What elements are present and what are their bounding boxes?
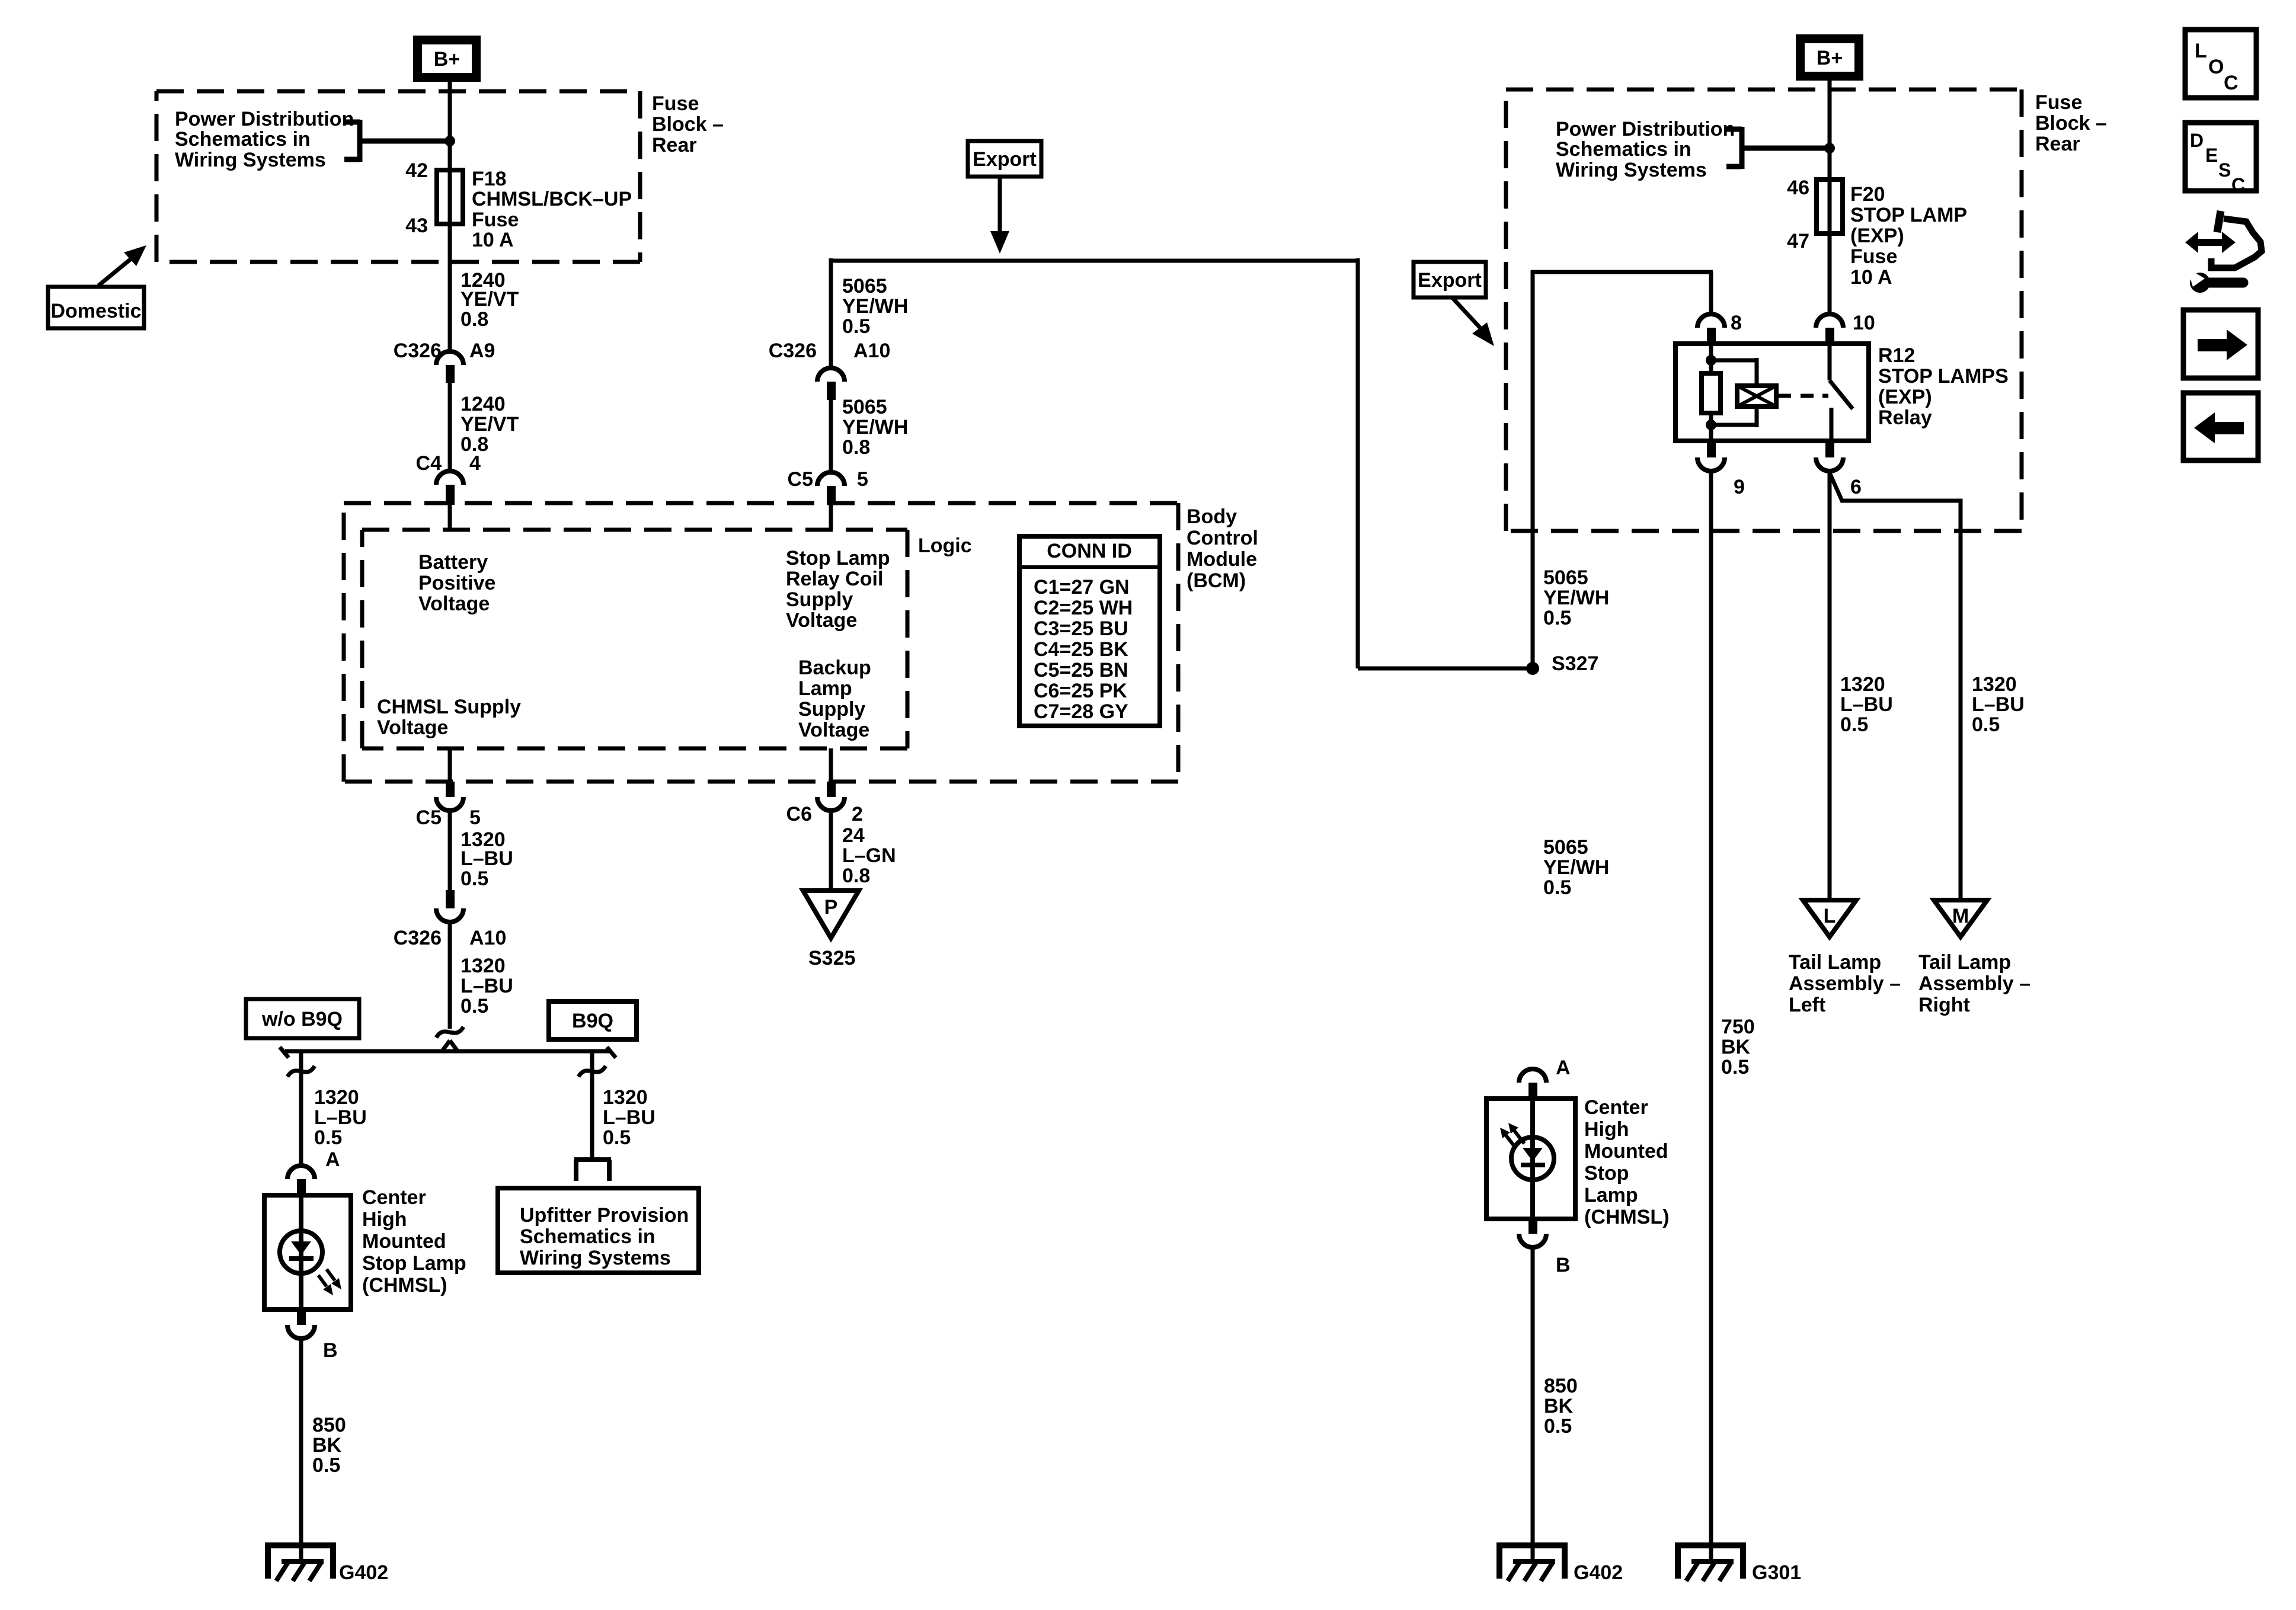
svg-text:YE/VT: YE/VT <box>461 413 519 436</box>
wire BCM-C5 feed from export path <box>831 259 1358 263</box>
wire CHMSL-B to G402 right, 850 BK 0.5 <box>1531 1247 1535 1561</box>
svg-text:8: 8 <box>1731 312 1742 334</box>
connector C6 pin 2 out of BCM <box>786 782 863 825</box>
svg-text:Center: Center <box>362 1186 426 1209</box>
wire BCM-C5 to C326-A10, 1320 L-BU 0.5 <box>448 811 452 890</box>
svg-text:BK: BK <box>1721 1036 1751 1058</box>
svg-text:0.5: 0.5 <box>314 1126 342 1149</box>
BCM logic inner dashed box <box>362 528 907 532</box>
option split bar with chevron <box>280 1041 616 1058</box>
svg-text:Module: Module <box>1187 548 1257 571</box>
ground G402 (left) <box>268 1545 333 1579</box>
svg-text:0.5: 0.5 <box>1840 713 1868 736</box>
connector pin A of CHMSL (left) <box>287 1148 340 1196</box>
svg-text:A: A <box>325 1148 340 1171</box>
svg-text:C: C <box>2231 174 2245 196</box>
wire C326-A9 to BCM C4, 1240 YE/VT 0.8 <box>448 383 452 471</box>
svg-text:Positive: Positive <box>418 572 495 594</box>
svg-text:A10: A10 <box>469 927 506 949</box>
bracket from note to feed wire (left) <box>344 120 360 125</box>
svg-text:5: 5 <box>857 468 868 491</box>
svg-text:STOP LAMP: STOP LAMP <box>1850 204 1967 226</box>
connector pin B of CHMSL (left) <box>287 1310 338 1362</box>
svg-text:A: A <box>1556 1057 1571 1079</box>
fuse block - rear dashed box (left) <box>156 89 640 94</box>
wire relay pin 6 branch to tail lamp right <box>1830 473 1961 900</box>
svg-text:S: S <box>2218 159 2231 181</box>
center high mounted stop lamp CHMSL (right) <box>1486 1096 1670 1228</box>
svg-text:5065: 5065 <box>1543 566 1588 589</box>
svg-text:850: 850 <box>312 1414 346 1436</box>
svg-text:M: M <box>1952 905 1969 927</box>
svg-text:F20: F20 <box>1850 183 1885 206</box>
svg-text:BK: BK <box>312 1434 342 1457</box>
svg-text:Control: Control <box>1187 527 1258 549</box>
svg-text:L–BU: L–BU <box>314 1106 367 1129</box>
svg-text:0.5: 0.5 <box>1543 607 1571 629</box>
wire relay pin 8 up and across to S327 line <box>1709 272 1713 315</box>
svg-text:1320: 1320 <box>1972 673 2017 696</box>
ground G402 (right) <box>1499 1545 1565 1579</box>
relay coil branch junction dots <box>1706 355 1716 366</box>
svg-text:5065: 5065 <box>1543 836 1588 859</box>
svg-text:P: P <box>824 896 838 918</box>
svg-text:5065: 5065 <box>842 396 887 418</box>
svg-text:(CHMSL): (CHMSL) <box>1584 1206 1670 1228</box>
icon box arrow left <box>2183 393 2258 460</box>
svg-text:10 A: 10 A <box>1850 266 1892 289</box>
right branch hook squiggle (B9Q) <box>578 1066 606 1077</box>
svg-text:4: 4 <box>469 452 481 475</box>
ground G301 <box>1678 1545 1743 1579</box>
callout Domestic with arrow <box>48 245 146 328</box>
connector relay pin 9 <box>1697 441 1745 498</box>
svg-text:2: 2 <box>852 803 863 825</box>
svg-text:1320: 1320 <box>1840 673 1885 696</box>
svg-text:0.5: 0.5 <box>312 1454 340 1477</box>
svg-text:YE/WH: YE/WH <box>1543 587 1609 609</box>
svg-text:Relay: Relay <box>1878 406 1932 429</box>
svg-text:Wiring Systems: Wiring Systems <box>1556 159 1707 181</box>
svg-text:CONN ID: CONN ID <box>1047 540 1132 562</box>
svg-text:C7=28 GY: C7=28 GY <box>1034 700 1128 723</box>
svg-text:Left: Left <box>1789 994 1825 1016</box>
svg-text:L: L <box>2195 40 2207 62</box>
svg-text:CHMSL Supply: CHMSL Supply <box>377 696 521 718</box>
svg-text:10 A: 10 A <box>472 229 514 251</box>
svg-text:C2=25 WH: C2=25 WH <box>1034 597 1133 619</box>
svg-text:1320: 1320 <box>461 955 506 977</box>
body control module BCM outer dashed box <box>344 501 1178 505</box>
svg-text:0.5: 0.5 <box>842 315 870 338</box>
svg-text:S325: S325 <box>808 947 855 969</box>
svg-text:Right: Right <box>1918 994 1970 1016</box>
splice node S327 <box>1526 662 1539 675</box>
wire C6 to splice S325, 24 L-GN 0.8 <box>829 811 833 891</box>
svg-text:Voltage: Voltage <box>798 719 869 741</box>
connector relay pin 10 <box>1816 312 1875 344</box>
wire B+ to fuse F18 (x=759) <box>448 82 452 225</box>
wire B9Q branch to upfitter provision, 1320 L-BU 0.5 <box>590 1051 594 1160</box>
svg-text:STOP LAMPS: STOP LAMPS <box>1878 365 2009 388</box>
svg-text:C6=25 PK: C6=25 PK <box>1034 680 1127 702</box>
relay coil element (box with X) <box>1737 386 1776 406</box>
wire B+ to fuse F20 <box>1828 81 1832 235</box>
svg-text:0.8: 0.8 <box>842 865 870 887</box>
svg-text:Voltage: Voltage <box>786 609 857 632</box>
svg-text:Block –: Block – <box>2035 112 2107 135</box>
svg-text:Assembly –: Assembly – <box>1918 972 2030 995</box>
svg-text:1240: 1240 <box>461 393 506 415</box>
svg-text:YE/VT: YE/VT <box>461 288 519 311</box>
callout Export (middle) with arrow <box>968 141 1041 254</box>
junction node on B+ feed (right) <box>1824 143 1835 153</box>
svg-text:(CHMSL): (CHMSL) <box>362 1274 447 1297</box>
svg-text:C6: C6 <box>786 803 812 825</box>
wire inside BCM left exit <box>448 748 452 782</box>
svg-text:Fuse: Fuse <box>472 209 519 231</box>
svg-text:C326: C326 <box>769 340 817 362</box>
relay coil to armature dashed link <box>1776 394 1791 398</box>
svg-text:0.5: 0.5 <box>461 868 488 890</box>
svg-text:Fuse: Fuse <box>2035 91 2082 114</box>
wire inside BCM right entry <box>829 505 833 530</box>
callout box B9Q <box>549 1001 637 1039</box>
svg-text:Rear: Rear <box>652 134 697 156</box>
svg-text:Wiring Systems: Wiring Systems <box>175 149 326 171</box>
option split break squiggle <box>436 1027 463 1038</box>
wire C326-A10 to option split, 1320 L-BU 0.5 <box>448 922 452 1029</box>
svg-text:Fuse: Fuse <box>1850 245 1897 268</box>
svg-text:Export: Export <box>973 148 1037 171</box>
svg-text:CHMSL/BCK–UP: CHMSL/BCK–UP <box>472 188 632 210</box>
fuse F18 CHMSL/BCK-UP 10A <box>405 159 632 251</box>
wire C326-A10 to BCM C5, 5065 YE/WH 0.8 <box>829 400 833 472</box>
svg-text:0.5: 0.5 <box>1543 876 1571 899</box>
callout box w/o B9Q <box>246 999 359 1038</box>
svg-text:Assembly –: Assembly – <box>1789 972 1901 995</box>
connector pin A of CHMSL (right) <box>1519 1057 1571 1100</box>
svg-text:(EXP): (EXP) <box>1878 386 1932 408</box>
svg-text:Schematics in: Schematics in <box>520 1225 655 1248</box>
icon box arrow right <box>2183 310 2258 378</box>
svg-text:S327: S327 <box>1552 652 1598 675</box>
connector C5 pin 5 out of BCM (left) <box>416 782 481 829</box>
svg-text:Lamp: Lamp <box>1584 1184 1638 1206</box>
svg-text:Voltage: Voltage <box>377 716 448 739</box>
svg-text:YE/WH: YE/WH <box>1543 856 1609 879</box>
svg-text:B+: B+ <box>434 48 460 71</box>
svg-text:42: 42 <box>405 159 428 182</box>
wire relay pin 6 to tail lamp left, 1320 L-BU 0.5 <box>1828 471 1832 900</box>
svg-text:C: C <box>2224 72 2239 94</box>
svg-text:Upfitter Provision: Upfitter Provision <box>520 1204 689 1227</box>
left branch hook squiggle <box>287 1066 315 1077</box>
svg-text:B9Q: B9Q <box>572 1010 613 1032</box>
svg-text:Relay Coil: Relay Coil <box>786 568 883 590</box>
svg-text:C326: C326 <box>394 927 442 949</box>
svg-text:G301: G301 <box>1752 1561 1801 1584</box>
relay resistor element <box>1702 373 1721 413</box>
svg-text:0.5: 0.5 <box>461 995 488 1017</box>
svg-text:Supply: Supply <box>798 698 865 721</box>
svg-text:R12: R12 <box>1878 344 1915 367</box>
svg-text:Tail Lamp: Tail Lamp <box>1918 951 2011 974</box>
center high mounted stop lamp CHMSL (left) <box>264 1186 466 1310</box>
svg-text:E: E <box>2205 145 2218 166</box>
svg-text:Stop Lamp: Stop Lamp <box>786 547 890 569</box>
svg-text:0.5: 0.5 <box>1972 713 2000 736</box>
svg-text:1320: 1320 <box>603 1086 648 1109</box>
svg-text:G402: G402 <box>339 1561 388 1584</box>
icon box DESC <box>2185 123 2256 196</box>
svg-text:Tail Lamp: Tail Lamp <box>1789 951 1881 974</box>
svg-text:Block –: Block – <box>652 113 724 136</box>
svg-text:Power Distribution: Power Distribution <box>1556 118 1735 140</box>
svg-text:10: 10 <box>1853 312 1875 334</box>
fuse F20 STOP LAMP (EXP) 10A <box>1787 177 1967 289</box>
svg-text:L–BU: L–BU <box>461 975 513 997</box>
svg-text:A9: A9 <box>469 340 495 362</box>
svg-text:w/o B9Q: w/o B9Q <box>261 1008 343 1030</box>
svg-text:750: 750 <box>1721 1016 1755 1038</box>
svg-text:Mounted: Mounted <box>1584 1140 1668 1163</box>
svg-text:Domestic: Domestic <box>50 300 141 322</box>
svg-text:Voltage: Voltage <box>418 593 490 615</box>
svg-text:B: B <box>1556 1254 1571 1276</box>
wire inside BCM left entry <box>448 503 452 530</box>
svg-text:High: High <box>362 1208 407 1231</box>
svg-text:G402: G402 <box>1574 1561 1623 1584</box>
off-page bracket to upfitter provision <box>574 1157 611 1162</box>
wire F18 to C326-A9, 1240 YE/VT 0.8 <box>448 224 452 351</box>
svg-text:0.5: 0.5 <box>603 1126 631 1149</box>
svg-text:Fuse: Fuse <box>652 92 699 115</box>
svg-text:O: O <box>2208 56 2224 78</box>
relay switch armature <box>1828 344 1832 380</box>
callout Export (right) with arrow <box>1414 262 1494 346</box>
wire fuse F20 to relay pin 10 <box>1828 233 1832 315</box>
connector relay pin 8 <box>1697 312 1742 344</box>
connector C4 pin 4 into BCM <box>416 452 481 505</box>
svg-text:43: 43 <box>405 215 428 237</box>
svg-text:B: B <box>323 1339 338 1362</box>
svg-text:L–BU: L–BU <box>1840 693 1893 716</box>
svg-text:Lamp: Lamp <box>798 677 852 700</box>
svg-text:C326: C326 <box>394 340 442 362</box>
wire export feed to splice S327 <box>1358 667 1533 671</box>
wire relay pin 9 to G301, 750 BK 0.5 <box>1709 471 1713 1561</box>
svg-text:C3=25 BU: C3=25 BU <box>1034 617 1128 640</box>
svg-text:High: High <box>1584 1118 1629 1141</box>
connector C326 pin A10 (left) <box>394 890 507 949</box>
wire inside BCM right exit <box>829 748 833 782</box>
svg-text:0.8: 0.8 <box>842 436 870 459</box>
junction node on B+ feed (left) <box>445 136 455 146</box>
wire CHMSL-B to G402, 850 BK 0.5 (left) <box>299 1339 303 1561</box>
svg-text:C5: C5 <box>416 806 442 829</box>
svg-text:6: 6 <box>1850 476 1862 498</box>
svg-text:C4=25 BK: C4=25 BK <box>1034 638 1128 661</box>
svg-text:A10: A10 <box>853 340 890 362</box>
svg-text:47: 47 <box>1787 230 1809 252</box>
svg-text:24: 24 <box>842 824 865 847</box>
svg-text:Mounted: Mounted <box>362 1230 446 1253</box>
callout Upfitter Provision Schematics in Wiring Systems <box>498 1188 699 1273</box>
off-page triangle L tail lamp left <box>1803 900 1856 937</box>
svg-text:0.8: 0.8 <box>461 308 488 331</box>
connector C326 pin A9 <box>394 340 495 383</box>
svg-text:9: 9 <box>1734 476 1745 498</box>
bracket from note to feed wire (right) <box>1726 127 1742 132</box>
svg-text:(BCM): (BCM) <box>1187 569 1246 592</box>
svg-text:Stop: Stop <box>1584 1162 1629 1185</box>
svg-text:0.5: 0.5 <box>1721 1056 1749 1078</box>
svg-text:Schematics in: Schematics in <box>1556 138 1691 161</box>
svg-text:5065: 5065 <box>842 275 887 297</box>
svg-text:Wiring Systems: Wiring Systems <box>520 1247 671 1269</box>
svg-text:Supply: Supply <box>786 588 853 611</box>
connector C326 pin A10 (middle) <box>769 340 891 400</box>
svg-text:Power Distribution: Power Distribution <box>175 108 354 130</box>
connector C5 pin 5 into BCM (middle) <box>788 468 868 505</box>
svg-text:L–BU: L–BU <box>1972 693 2025 716</box>
svg-text:L–BU: L–BU <box>461 847 513 870</box>
power symbol B+ (left battery positive) <box>413 36 481 82</box>
svg-text:C4: C4 <box>416 452 442 475</box>
icon vehicle with wrench <box>2185 211 2262 293</box>
off-page triangle P <box>803 891 859 938</box>
svg-text:850: 850 <box>1544 1375 1578 1397</box>
svg-text:0.5: 0.5 <box>1544 1415 1572 1438</box>
svg-text:B+: B+ <box>1817 47 1843 69</box>
svg-text:Backup: Backup <box>798 657 871 679</box>
svg-text:D: D <box>2190 130 2204 151</box>
svg-text:(EXP): (EXP) <box>1850 225 1904 247</box>
svg-text:Schematics in: Schematics in <box>175 128 311 151</box>
svg-text:Body: Body <box>1187 505 1237 528</box>
relay R12 STOP LAMPS (EXP) box <box>1675 344 1869 441</box>
off-page triangle M tail lamp right <box>1934 900 1987 937</box>
svg-text:YE/WH: YE/WH <box>842 295 908 318</box>
svg-text:Center: Center <box>1584 1096 1648 1119</box>
svg-text:C1=27 GN: C1=27 GN <box>1034 576 1130 598</box>
svg-text:Battery: Battery <box>418 551 488 574</box>
fuse block - rear dashed box (right) <box>1506 88 2022 92</box>
svg-text:F18: F18 <box>472 168 507 190</box>
svg-text:C5=25 BN: C5=25 BN <box>1034 659 1128 681</box>
CONN ID table <box>1019 536 1160 726</box>
svg-text:46: 46 <box>1787 177 1809 199</box>
relay coil branch wires <box>1709 344 1713 373</box>
svg-text:YE/WH: YE/WH <box>842 416 908 438</box>
svg-text:BK: BK <box>1544 1395 1574 1417</box>
svg-text:1320: 1320 <box>314 1086 359 1109</box>
svg-text:Export: Export <box>1418 269 1482 292</box>
svg-text:5: 5 <box>469 806 481 829</box>
svg-text:L–BU: L–BU <box>603 1106 655 1129</box>
svg-text:L–GN: L–GN <box>842 844 896 867</box>
wire left branch to CHMSL lamp, 1320 L-BU 0.5 <box>299 1051 303 1166</box>
power symbol B+ (right) <box>1796 34 1863 81</box>
connector relay pin 6 <box>1816 441 1862 498</box>
svg-text:Logic: Logic <box>918 534 972 557</box>
icon box LOC <box>2185 30 2256 98</box>
svg-text:Rear: Rear <box>2035 133 2080 155</box>
svg-text:Stop Lamp: Stop Lamp <box>362 1252 466 1275</box>
svg-text:L: L <box>1824 905 1836 927</box>
connector pin B of CHMSL (right) <box>1519 1219 1571 1276</box>
svg-text:C5: C5 <box>788 468 813 491</box>
